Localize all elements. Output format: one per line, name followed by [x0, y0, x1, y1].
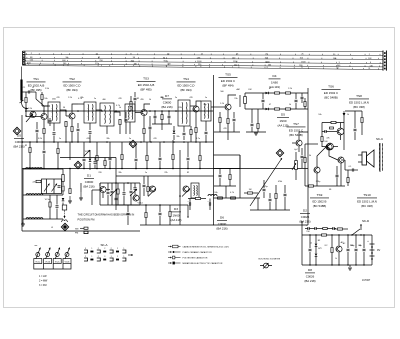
- wire TS2 base: [66, 115, 68, 117]
- wire TS4 e2: [195, 133, 197, 142]
- capacitor C7: [149, 127, 152, 128]
- wire TS6 emit: [340, 135, 342, 140]
- wire D7a: [173, 126, 175, 130]
- wire C17: [263, 180, 265, 188]
- transistor TS1a: [30, 111, 36, 117]
- resistor R15: [321, 137, 323, 142]
- wire rc2: [229, 169, 231, 175]
- FM tuner coil L1a: [26, 168, 34, 169]
- wire AGC rail: [22, 168, 308, 170]
- wire cap TS1 b: [36, 133, 38, 142]
- wire mix row205: [100, 204, 140, 206]
- svg-text:1: 1: [111, 256, 112, 258]
- svg-text:1N60: 1N60: [280, 119, 287, 123]
- capacitor C4: [89, 132, 92, 133]
- wire TS6 col: [340, 123, 342, 129]
- resistor R2: [41, 95, 43, 100]
- capacitor C8: [183, 133, 186, 134]
- svg-text:1: 1: [91, 256, 92, 258]
- elec cap PS a: [308, 227, 309, 230]
- transistor TS9a: [326, 144, 332, 150]
- transistor TS6 Q: [337, 128, 344, 135]
- wire rc row: [214, 185, 236, 187]
- wire o2: [147, 176, 149, 186]
- resistor A2: [96, 156, 98, 161]
- svg-text:8.2k: 8.2k: [38, 138, 42, 140]
- wire R13: [257, 109, 259, 123]
- svg-text:(BC 328): (BC 328): [361, 204, 373, 208]
- svg-text:CARBON RESISTOR 5%, SERIES E6+: CARBON RESISTOR 5%, SERIES E6+E12 ±10%: [183, 245, 229, 248]
- wire T6 bot: [205, 121, 207, 131]
- wire TS6 q2: [322, 146, 327, 148]
- wire a1: [83, 150, 85, 158]
- capacitor MX1: [94, 162, 97, 163]
- wire l1: [29, 142, 31, 147]
- resistor DET2: [304, 102, 306, 107]
- resistor MX8: [69, 189, 71, 194]
- svg-text:1N60: 1N60: [271, 80, 278, 84]
- resistor O7: [145, 213, 147, 218]
- svg-text:C0600: C0600: [163, 100, 172, 104]
- svg-text:1n: 1n: [205, 97, 207, 99]
- resistor A8: [172, 155, 174, 160]
- node TS1 in: [25, 115, 26, 116]
- wire T1 bottom: [53, 123, 55, 131]
- svg-text:D8: D8: [308, 268, 312, 272]
- svg-text:39k: 39k: [203, 104, 206, 106]
- svg-text:2: 2: [98, 248, 99, 250]
- svg-text:1k: 1k: [347, 114, 349, 116]
- wire TS2 e2: [71, 132, 73, 142]
- wire ps toprail: [302, 234, 372, 236]
- capacitor C17: [263, 189, 266, 190]
- svg-text:PLATE CERAMIC CAPACITOR: PLATE CERAMIC CAPACITOR: [183, 251, 213, 254]
- wire af row1: [214, 154, 241, 156]
- wire TS3 emitter: [143, 116, 145, 128]
- test point diamond 5: [74, 161, 82, 169]
- trimmer o1: [148, 189, 156, 197]
- wire R7b: [190, 126, 192, 130]
- agc junction dots: [29, 168, 31, 170]
- wire af row3: [250, 209, 290, 211]
- wire TS9 conn1: [329, 150, 338, 160]
- trimmer o2: [182, 189, 190, 197]
- svg-text:TS1: TS1: [33, 77, 39, 81]
- wire bot mid row: [140, 224, 214, 226]
- IF transformer T5: [178, 100, 190, 126]
- trimmer VC1 arrow: [26, 114, 33, 122]
- wire mx1: [94, 158, 96, 161]
- long diagonal arrow: [250, 158, 282, 206]
- resistor FM col coil: [62, 175, 64, 182]
- wire SKD feed: [360, 225, 362, 230]
- battery BT1: [370, 244, 375, 259]
- resistor R21: [231, 197, 236, 199]
- svg-text:10k: 10k: [214, 192, 217, 194]
- wire mix vleft: [99, 183, 101, 205]
- svg-text:(BC 338): (BC 338): [353, 105, 365, 109]
- capacitor A1: [83, 159, 86, 160]
- wire pot: [295, 152, 297, 161]
- wire osc row176: [116, 175, 214, 177]
- wire mix vright: [139, 183, 141, 205]
- wire TS6 base: [329, 131, 337, 133]
- capacitor TS1 bypass: [36, 130, 39, 131]
- svg-text:ED 1502 A,B: ED 1502 A,B: [28, 83, 45, 87]
- wire mx3: [107, 183, 109, 191]
- resistor PS R2: [338, 228, 343, 230]
- wire psq: [338, 235, 340, 245]
- transistor TS6 Q2: [327, 143, 334, 150]
- FM trimmer 2: [52, 184, 58, 192]
- wire TS9 drop: [340, 163, 342, 186]
- wire T5 out: [190, 105, 196, 107]
- wire C14: [322, 131, 325, 133]
- wire T6 gnd: [205, 135, 207, 142]
- res PS c: [323, 228, 328, 230]
- capacitor O11: [189, 203, 190, 206]
- wire TS7 base: [292, 142, 295, 144]
- osc dots: [145, 204, 147, 206]
- detector coil L1: [244, 97, 247, 104]
- ground MX7: [68, 201, 72, 203]
- switch SK-C contacts: [379, 144, 380, 145]
- speaker: [362, 152, 367, 165]
- trimmer top: [84, 150, 90, 156]
- wire det top: [245, 92, 308, 94]
- svg-text:TS9: TS9: [317, 193, 323, 197]
- svg-text:D6: D6: [220, 216, 224, 220]
- pot R19: [295, 161, 298, 170]
- capacitor A9: [187, 158, 190, 159]
- wire ps right: [371, 235, 373, 265]
- mix extra cap1: [115, 198, 118, 199]
- wire TS1 collector: [44, 106, 50, 113]
- svg-text:TS3: TS3: [143, 77, 149, 81]
- transistor TS9c: [314, 167, 320, 173]
- svg-text:THE CIRCUIT DIAGRAM HAS BE: THE CIRCUIT DIAGRAM HAS BEEN DRAWN IN: [78, 213, 135, 217]
- wire TS9 conn2: [317, 147, 326, 167]
- transistor TS3: [141, 109, 147, 115]
- svg-text:1N60: 1N60: [173, 213, 180, 217]
- svg-text:SK-C: SK-C: [376, 137, 384, 141]
- wire T2 gnd: [89, 123, 91, 130]
- svg-text:POSITION FM: POSITION FM: [78, 218, 95, 222]
- capacitor A7: [159, 158, 162, 159]
- wire R3: [65, 127, 67, 142]
- svg-text:(BF 495): (BF 495): [140, 88, 151, 92]
- svg-text:2.2k: 2.2k: [28, 108, 32, 110]
- capacitor RV1: [354, 129, 357, 130]
- wire TS3 base: [135, 112, 141, 114]
- transistor TS2: [69, 113, 75, 119]
- wire fmcol2: [62, 192, 64, 196]
- resistor TS4 emitter: [195, 128, 197, 133]
- wire af drop1: [239, 155, 241, 198]
- resistor PS R1: [322, 234, 327, 236]
- FM tuner coil L1b: [34, 168, 42, 169]
- FM int string2: [56, 195, 58, 205]
- wire C19: [284, 185, 286, 193]
- wire rv2: [361, 111, 363, 117]
- wire TS2 emitter: [71, 120, 73, 126]
- wire T1 top: [42, 105, 48, 107]
- wire rc1: [219, 169, 221, 175]
- wire rv1: [354, 132, 356, 140]
- wire B+ vertical right: [307, 88, 309, 225]
- wire o7: [145, 218, 147, 225]
- FM tuner coil L2a: [26, 194, 34, 195]
- wire ps d: [315, 235, 317, 243]
- wire mx8: [69, 183, 71, 188]
- ground MX9: [79, 198, 83, 200]
- wire ps left: [301, 235, 303, 265]
- svg-text:(BA 216): (BA 216): [13, 145, 24, 149]
- capacitor C14: [325, 130, 326, 133]
- resistor FM col R2: [62, 205, 67, 210]
- svg-text:1: 1: [91, 248, 92, 250]
- wire psc4: [363, 235, 365, 248]
- transistor osc1: [149, 186, 155, 192]
- svg-text:FM: FM: [75, 233, 78, 235]
- wire l3: [57, 142, 59, 148]
- transistor osc2: [183, 186, 189, 192]
- wire row142: [22, 141, 214, 143]
- dial scale band: [23, 50, 384, 53]
- capacitor C1: [28, 91, 29, 94]
- wire out top: [305, 143, 318, 145]
- switch SK-D: [352, 229, 360, 235]
- capacitor O1: [143, 185, 146, 186]
- wire spk: [358, 154, 362, 156]
- wire C15: [345, 169, 352, 171]
- svg-text:ED 1502 L,M,N: ED 1502 L,M,N: [349, 100, 369, 104]
- resistor RC2: [229, 175, 231, 180]
- svg-text:ED 1502 C: ED 1502 C: [221, 79, 235, 83]
- wire rc drop: [225, 186, 227, 198]
- svg-text:(BF 494): (BF 494): [66, 88, 77, 92]
- wire right h1: [345, 110, 362, 112]
- svg-text:SK-D: SK-D: [362, 219, 370, 223]
- diode PS D1: [315, 244, 318, 247]
- resistor R10: [286, 92, 291, 94]
- supply arrow TS6: [343, 116, 345, 150]
- mix v1: [111, 183, 113, 190]
- capacitor L2: [43, 151, 46, 152]
- FM tuner coil L3a: [26, 218, 34, 219]
- svg-text:2.2k: 2.2k: [68, 97, 72, 99]
- wire row142 drop: [69, 142, 71, 160]
- wire ps botrail: [302, 264, 372, 266]
- FM tuner left wire: [22, 169, 24, 224]
- wire mx9: [80, 183, 82, 192]
- switch SK-A contacts: [84, 250, 88, 253]
- capacitor PS C2: [347, 249, 350, 250]
- svg-text:ELECTRONIC VOLTMETER: ELECTRONIC VOLTMETER: [259, 258, 281, 260]
- wire psc2: [347, 235, 349, 248]
- svg-text:39k: 39k: [118, 172, 121, 174]
- diode FM col D: [62, 198, 65, 201]
- transistor TS4: [193, 106, 199, 112]
- capacitor DS3: [168, 116, 171, 117]
- svg-text:3 = FM: 3 = FM: [39, 284, 47, 287]
- ground FM: [21, 224, 25, 226]
- coil O13: [208, 195, 217, 197]
- mixer circle left: [100, 186, 106, 192]
- capacitor C9: [205, 132, 208, 133]
- wire a6: [146, 142, 148, 155]
- resistor R13: [257, 124, 259, 129]
- wire T5 bot: [183, 126, 185, 132]
- diode D1 sym: [89, 159, 92, 162]
- svg-text:ED 1500 C,D: ED 1500 C,D: [63, 83, 80, 87]
- svg-text:3: 3: [85, 248, 86, 250]
- svg-text:1k: 1k: [335, 258, 337, 260]
- wire C13: [251, 109, 253, 123]
- FM tuner coil L3b: [35, 218, 43, 219]
- wire T1 gnd: [53, 136, 55, 143]
- capacitor C6: [134, 98, 137, 99]
- FM trimmer 1: [44, 184, 50, 192]
- wire TS1 base: [26, 116, 41, 118]
- wire o11: [189, 199, 191, 204]
- wire a5: [135, 144, 137, 158]
- svg-text:1n: 1n: [129, 138, 131, 140]
- wire ps gnd: [349, 265, 351, 267]
- svg-text:470k: 470k: [278, 181, 282, 183]
- svg-text:39k: 39k: [176, 136, 179, 138]
- wire a9: [187, 142, 189, 157]
- diode PS D2: [315, 254, 318, 257]
- wire left vertical: [21, 115, 23, 231]
- capacitor TS1 blob: [49, 120, 52, 121]
- capacitor A3: [109, 158, 112, 159]
- wire det gnd row: [246, 131, 266, 133]
- wire o10: [188, 198, 195, 200]
- FM cap inner: [58, 186, 61, 187]
- wire mix stub: [92, 189, 100, 191]
- wire det mid v: [239, 95, 241, 107]
- resistor R14: [331, 121, 336, 123]
- svg-text:39k: 39k: [160, 97, 163, 99]
- svg-text:D1: D1: [87, 174, 91, 178]
- resistor O9: [169, 212, 171, 217]
- resistor O10: [196, 197, 201, 199]
- gang bracket: [34, 264, 71, 270]
- wire TS2 collector: [72, 104, 78, 112]
- capacitor C11: [262, 100, 265, 101]
- FM inner v1: [46, 179, 48, 194]
- svg-text:VC1b: VC1b: [45, 261, 50, 263]
- svg-text:(BF 494): (BF 494): [180, 88, 191, 92]
- transistor TS1: [41, 113, 47, 119]
- resistor R23: [275, 194, 277, 199]
- capacitor C13: [251, 124, 254, 125]
- resistor R7: [190, 130, 192, 135]
- resistor R12: [286, 108, 291, 110]
- svg-text:39k: 39k: [80, 97, 83, 99]
- wire cap TS1: [36, 122, 38, 129]
- wire TS7 emit: [298, 147, 300, 152]
- svg-text:1n: 1n: [145, 172, 147, 174]
- wire TS3 e2: [143, 134, 145, 142]
- svg-text:JU7007: JU7007: [362, 279, 371, 282]
- wire T5 gnd: [183, 136, 185, 140]
- svg-text:SM: SM: [75, 228, 78, 230]
- svg-text:C0600: C0600: [85, 180, 94, 184]
- wire disc drop: [161, 124, 163, 130]
- resistor R3: [65, 122, 67, 127]
- capacitor C2: [53, 133, 56, 134]
- svg-text:4.7n: 4.7n: [196, 138, 200, 140]
- capacitor PS C4: [363, 249, 366, 250]
- resistor TS2 emitter: [71, 127, 73, 132]
- wire det drop: [239, 155, 241, 169]
- IF transformer T4: [125, 104, 135, 122]
- svg-text:2: 2: [85, 256, 86, 258]
- wire det bot: [245, 108, 308, 110]
- wire R2 leads: [41, 92, 43, 94]
- wire left bottom rail: [22, 230, 140, 232]
- svg-text:MINIATURE ELECTROLYTIC CAPACIT: MINIATURE ELECTROLYTIC CAPACITOR: [183, 262, 223, 265]
- svg-text:FM: FM: [249, 89, 252, 91]
- svg-text:2: 2: [117, 248, 118, 250]
- svg-text:TS7: TS7: [293, 122, 299, 126]
- resistor R17: [309, 185, 314, 187]
- svg-text:D3: D3: [174, 207, 178, 211]
- FM tuner inner box: [42, 179, 62, 194]
- wire o1: [143, 176, 145, 184]
- osc v128: [127, 205, 129, 212]
- wire a8: [172, 140, 174, 154]
- svg-text:(BC 548B): (BC 548B): [289, 133, 303, 137]
- svg-text:4.7k: 4.7k: [116, 105, 120, 107]
- pot arrow: [292, 163, 296, 170]
- svg-text:D7: D7: [165, 94, 169, 98]
- capacitor DS1: [154, 116, 157, 117]
- svg-text:(BA 218): (BA 218): [304, 279, 315, 283]
- resistor O2: [147, 187, 149, 192]
- wire mid bottom rail: [213, 224, 308, 226]
- capacitor MX3: [107, 192, 110, 193]
- wire mcl: [99, 183, 101, 186]
- wire C10: [233, 112, 235, 118]
- wire R1: [25, 92, 27, 97]
- wire TS9 drop2: [316, 173, 318, 186]
- diode D4b: [266, 108, 269, 111]
- wire TS1 emitter2: [43, 134, 45, 142]
- wire C7: [149, 116, 151, 127]
- capacitor C16: [301, 156, 304, 157]
- diode D7a: [173, 131, 176, 134]
- svg-text:2: 2: [104, 248, 105, 250]
- wire a10: [199, 142, 201, 155]
- mixer circle: [133, 195, 139, 201]
- wire disc rail: [152, 123, 172, 125]
- mix dot1: [115, 182, 117, 184]
- svg-text:1: 1: [123, 248, 124, 250]
- wire T2 in: [78, 103, 84, 105]
- wire psc3: [355, 235, 357, 248]
- wire agc right: [214, 168, 241, 170]
- svg-text:ED 1502 A,B: ED 1502 A,B: [138, 83, 155, 87]
- resistor FM col R: [62, 186, 64, 191]
- wire TS6 toprow: [322, 122, 344, 124]
- svg-text:VC1c: VC1c: [85, 151, 90, 153]
- wire fmcol1: [62, 169, 64, 175]
- wire T6 out: [211, 106, 214, 108]
- svg-text:2n: 2n: [175, 97, 177, 99]
